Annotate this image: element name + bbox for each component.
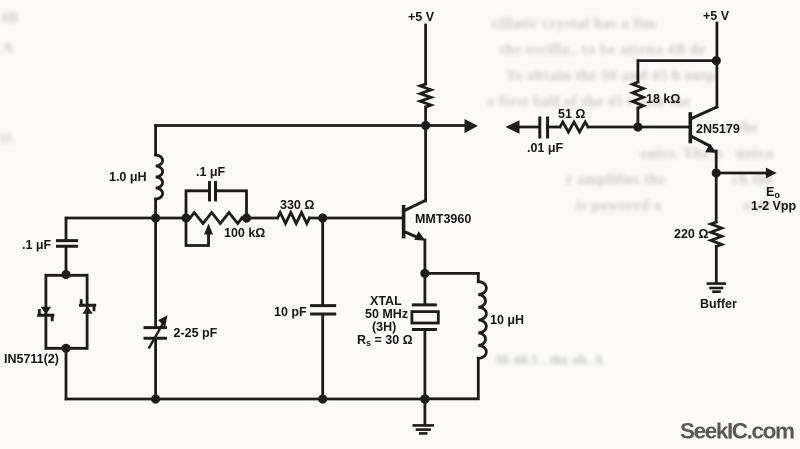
inductor L2 10uH xyxy=(478,282,486,359)
svg-text:SeekIC.com: SeekIC.com xyxy=(680,419,794,444)
resistor R 330 xyxy=(278,213,310,224)
svg-text:50 MHz: 50 MHz xyxy=(365,307,408,321)
wire: +5V node down to collector diagonal xyxy=(716,61,719,107)
variable capacitor arrow shaft xyxy=(149,324,162,347)
faint reverse-page bleed-through text, right column xyxy=(492,16,656,33)
junction dots xyxy=(421,121,430,130)
wire: output node down to 220 xyxy=(715,173,718,222)
svg-text:10 μH: 10 μH xyxy=(490,313,524,327)
svg-text:Buffer: Buffer xyxy=(700,297,737,311)
wire: +5V stem (left) xyxy=(424,25,427,84)
diode pair box wiring xyxy=(46,274,87,277)
wire: top output rail from 1.0uH corner to collector node xyxy=(156,124,426,127)
potentiometer R 100k body xyxy=(190,213,242,224)
wire: left drop from rail to coil xyxy=(154,126,157,156)
output arrowhead (points right) xyxy=(766,168,777,179)
diode D1 1N5711 (left, anode up) xyxy=(41,307,51,315)
svg-text:1-2 Vpp: 1-2 Vpp xyxy=(751,199,797,213)
Q1 emitter arrowhead xyxy=(414,231,425,241)
wire: collector node to output arrow xyxy=(426,124,464,127)
capacitor C .1uF bracket (parallel with pot) xyxy=(186,191,207,218)
svg-text:+5 V: +5 V xyxy=(408,10,435,24)
svg-text:18 kΩ: 18 kΩ xyxy=(646,92,680,106)
capacitor C .1uF (left) plates xyxy=(58,239,77,242)
svg-text:IN5711(2): IN5711(2) xyxy=(4,352,59,366)
svg-text:MMT3960: MMT3960 xyxy=(415,212,471,226)
wire: 10pF to bottom bus xyxy=(321,314,324,399)
svg-text:.1 μF: .1 μF xyxy=(22,238,52,252)
svg-text:2-25 pF: 2-25 pF xyxy=(174,326,218,340)
wire: tuning cap branch upper xyxy=(154,218,157,327)
capacitor C .01uF plates xyxy=(538,118,541,137)
wire: coil to main bus xyxy=(154,199,157,218)
wire: resistor to rail node xyxy=(424,107,427,126)
wire: left cap stem from bus xyxy=(65,218,68,239)
ground stem (main) xyxy=(423,399,426,424)
wire: input line from left arrow to coupling cap xyxy=(518,126,538,129)
resistor R 18k xyxy=(633,82,644,108)
wire: crystal stem upper xyxy=(423,273,426,303)
wire: 18k top to +5V node xyxy=(638,61,716,82)
svg-text:XTAL: XTAL xyxy=(370,294,402,308)
svg-text:330 Ω: 330 Ω xyxy=(280,198,314,212)
ground symbol (buffer) xyxy=(708,282,725,285)
wire: coil bottom return xyxy=(425,358,478,399)
wire: base node up to 18k xyxy=(637,108,640,127)
wire: Q1 collector to rail node xyxy=(424,126,427,202)
wire: 220 to ground xyxy=(715,247,718,283)
capacitor C .1uF plates xyxy=(208,183,211,200)
wire: coil top lead xyxy=(477,273,480,281)
wire: +5V stem (right) xyxy=(716,23,719,61)
wire: bus 330 to 10pF node and MMT3960 base xyxy=(310,217,403,220)
ground symbol (main) xyxy=(414,424,433,427)
inductor L1 1.0uH xyxy=(156,155,163,199)
wire: cap to 51 ohm xyxy=(548,126,560,129)
variable capacitor 2-25pF plates xyxy=(145,326,166,329)
wire: diode box to bottom bus xyxy=(65,348,68,399)
Q2 collector diagonal xyxy=(691,107,717,119)
Q2 emitter diagonal xyxy=(691,136,709,146)
variable capacitor arrowhead xyxy=(158,315,167,327)
transistor Q2 2N5179 base bar xyxy=(688,114,692,142)
wiper arm of potentiometer xyxy=(186,218,209,246)
resistor (unlabeled, +5V feed) xyxy=(420,84,431,107)
wire: 10pF branch upper xyxy=(321,218,324,304)
crystal Y1 top plate xyxy=(413,303,435,306)
wire: bus pot right lead xyxy=(242,217,278,220)
svg-text:Eo: Eo xyxy=(766,185,780,200)
svg-text:Rs = 30 Ω: Rs = 30 Ω xyxy=(357,333,413,348)
svg-text:100 kΩ: 100 kΩ xyxy=(224,226,265,240)
crystal Y1 body xyxy=(412,312,438,323)
svg-text:2N5179: 2N5179 xyxy=(696,122,740,136)
svg-text:+5 V: +5 V xyxy=(703,9,730,23)
transistor Q1 MMT3960 base bar xyxy=(402,207,406,237)
Q1 collector diagonal xyxy=(405,201,425,211)
wire: tuning cap to bottom bus xyxy=(154,338,157,399)
wire: emitter node to 10uH coil top xyxy=(425,272,478,275)
wire: cap to diode box xyxy=(65,248,68,276)
svg-text:.1 μF: .1 μF xyxy=(196,165,226,179)
svg-text:220 Ω: 220 Ω xyxy=(674,227,708,241)
wire: crystal stem lower to bottom bus xyxy=(423,330,426,400)
svg-text:.01 μF: .01 μF xyxy=(527,141,563,155)
resistor R 51 xyxy=(560,122,588,132)
wire: 51 ohm to base node xyxy=(588,126,689,129)
Q1 emitter diagonal xyxy=(405,232,420,238)
crystal Y1 bottom plate xyxy=(413,328,435,331)
resistor R 220 xyxy=(711,222,722,247)
wire: main bus left section xyxy=(66,217,190,220)
diode D2 1N5711 (right, anode down) xyxy=(82,306,92,314)
capacitor C 10pF plates xyxy=(312,304,335,307)
wire: Q1 emitter to crystal node xyxy=(423,240,426,273)
svg-text:(3H): (3H) xyxy=(372,320,396,334)
input arrowhead (points left) xyxy=(506,120,520,134)
svg-text:10 pF: 10 pF xyxy=(274,305,307,319)
wire: Q2 emitter to output node xyxy=(715,151,718,173)
svg-text:1.0 μH: 1.0 μH xyxy=(109,170,147,184)
wire: output node to arrow xyxy=(716,172,766,175)
wiper arrowhead xyxy=(204,224,213,235)
svg-text:51 Ω: 51 Ω xyxy=(558,107,585,121)
Q2 emitter arrowhead xyxy=(705,144,716,153)
output arrowhead top rail (points right) xyxy=(465,119,478,133)
wire: bottom bus xyxy=(66,398,425,401)
